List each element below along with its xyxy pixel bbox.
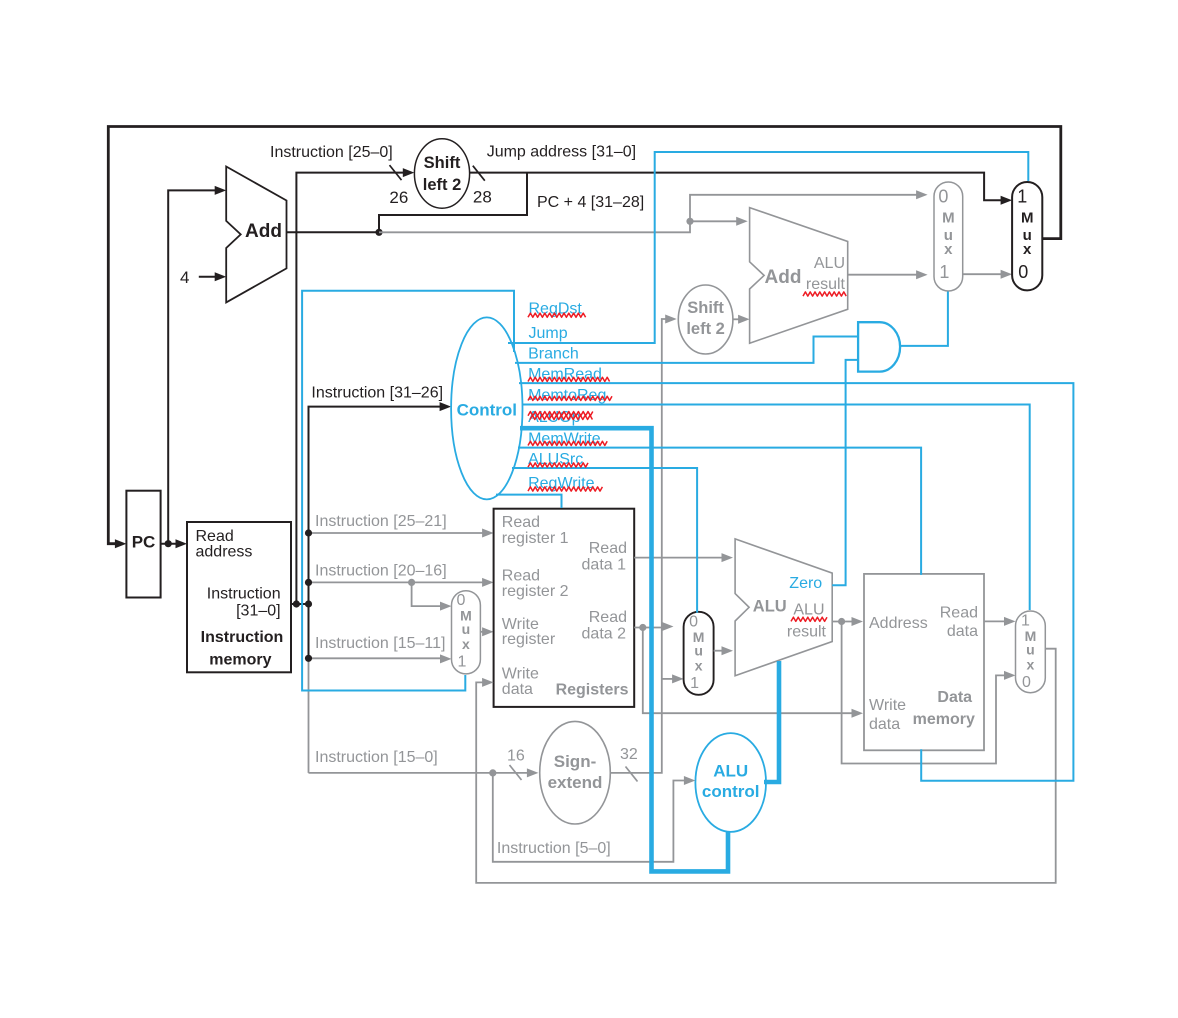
svg-text:M: M	[942, 210, 955, 227]
svg-text:ALU: ALU	[713, 762, 748, 781]
ALU control unit	[695, 733, 766, 832]
svg-text:ALU: ALU	[753, 598, 787, 616]
data memory	[864, 574, 984, 750]
instruction memory	[187, 522, 291, 672]
svg-text:Write: Write	[869, 697, 906, 714]
shifter Shift left 2 (jump)	[414, 139, 469, 208]
svg-text:x: x	[462, 636, 470, 652]
svg-text:x: x	[1023, 241, 1032, 258]
mux ALUSrc	[684, 612, 714, 695]
mux jump (PC source 2)	[1012, 182, 1042, 290]
wire: jump mux output feedback to PC (top border loop)	[108, 127, 1061, 544]
wire: Instruction[15-0] to sign extend	[309, 772, 531, 774]
svg-text:memory: memory	[209, 652, 271, 669]
svg-text:1: 1	[457, 654, 466, 671]
svg-text:ALU: ALU	[814, 255, 845, 272]
node: instruction output junction A	[293, 600, 300, 607]
wire: Add output PC+4	[287, 231, 380, 233]
wire: AND gate output to branch mux select	[900, 292, 948, 346]
svg-text:Address: Address	[869, 615, 928, 632]
svg-text:data 1: data 1	[582, 557, 627, 574]
wire: MemWrite control to data memory	[518, 448, 921, 575]
svg-text:0: 0	[1018, 262, 1028, 282]
wire: MemtoReg control to memtoreg mux select	[522, 405, 1030, 611]
AND gate (branch taken)	[858, 322, 900, 371]
node: tap 20-16	[305, 579, 312, 586]
svg-text:Add: Add	[765, 267, 802, 288]
wire: regdst mux to write register	[480, 631, 485, 633]
wire: Branch control to AND gate	[515, 337, 857, 363]
svg-text:1: 1	[690, 675, 699, 692]
mux memtoreg	[1016, 611, 1046, 693]
wire: instruction memory output stub	[291, 603, 309, 605]
registers file	[494, 509, 635, 707]
wire: Instruction[20-16] to read register 2	[309, 581, 486, 583]
adder Add (PC+4)	[226, 167, 286, 303]
svg-text:data: data	[502, 681, 533, 698]
wire: ALU control to ALU operation input (bus)	[764, 661, 779, 782]
wire: RegWrite control to registers	[496, 495, 562, 508]
svg-text:Instruction: Instruction	[201, 629, 284, 646]
svg-text:Zero: Zero	[789, 575, 822, 592]
svg-text:control: control	[702, 782, 760, 801]
wire: instruction field riser (black part)	[308, 604, 310, 658]
node: PC output junction	[165, 540, 172, 547]
svg-text:result: result	[787, 624, 827, 641]
svg-text:Read: Read	[502, 568, 540, 585]
wire: read data to memtoreg mux input 1	[984, 620, 1008, 622]
svg-text:Write: Write	[502, 666, 539, 683]
svg-text:Instruction [5–0]: Instruction [5–0]	[497, 840, 611, 857]
wire: Zero flag to AND gate	[832, 360, 857, 585]
svg-text:Data: Data	[937, 689, 972, 706]
wire: memtoreg mux output write-back to registers write data	[476, 649, 1055, 883]
svg-text:Jump: Jump	[529, 325, 568, 342]
svg-text:0: 0	[456, 592, 465, 609]
svg-text:data: data	[947, 623, 978, 640]
svg-text:u: u	[694, 642, 703, 658]
svg-text:Instruction [25–21]: Instruction [25–21]	[315, 513, 447, 530]
svg-text:ALU: ALU	[793, 602, 824, 619]
svg-text:Read: Read	[940, 605, 978, 622]
wire: PC to Add top input	[168, 190, 218, 543]
svg-text:memory: memory	[913, 711, 975, 728]
svg-text:1: 1	[1021, 613, 1030, 630]
node: 15-0 junction to ALU control path	[489, 769, 496, 776]
svg-text:Add: Add	[245, 221, 282, 242]
wire: ALUSrc mux output to ALU	[714, 650, 725, 652]
squiggle under branch ALU result	[803, 292, 846, 296]
svg-text:Branch: Branch	[528, 346, 579, 363]
svg-text:Instruction: Instruction	[207, 585, 281, 602]
svg-text:Read: Read	[589, 609, 627, 626]
svg-text:register 2: register 2	[502, 583, 569, 600]
svg-text:left 2: left 2	[423, 176, 462, 194]
wire: PC+4 to branch mux input 0	[379, 195, 920, 233]
wire: shift left 2 to branch adder bottom input	[733, 318, 742, 320]
wire: ALUSrc control to ALUSrc mux select	[512, 468, 697, 613]
node: read data 2 junction	[639, 624, 646, 631]
node: PC+4 junction	[375, 229, 382, 236]
wire: ALU result to memtoreg mux input 0	[842, 622, 1008, 764]
wire: read data 1 to ALU	[634, 557, 725, 559]
svg-text:M: M	[1021, 210, 1034, 227]
wire: branch offset to ALUSrc mux input 1	[662, 678, 676, 680]
svg-text:4: 4	[180, 268, 189, 287]
svg-text:Instruction [15–11]: Instruction [15–11]	[315, 635, 445, 652]
wire: MemRead control to data memory	[519, 383, 1073, 781]
svg-text:Instruction [25–0]: Instruction [25–0]	[270, 144, 393, 161]
svg-text:u: u	[1026, 642, 1035, 658]
svg-text:32: 32	[620, 746, 638, 763]
register PC	[126, 491, 160, 598]
svg-text:0: 0	[938, 187, 948, 207]
wire: sign extend output to ALUSrc mux input 1 and shift left 2	[611, 319, 669, 773]
control unit	[451, 317, 522, 499]
svg-text:28: 28	[473, 188, 492, 207]
sign extender	[540, 721, 611, 824]
wire: RegDst control to regdst mux select	[302, 291, 514, 691]
mux branch (PC source)	[934, 182, 963, 291]
svg-text:x: x	[944, 241, 953, 258]
wire: Jump control to jump mux select	[508, 152, 1028, 343]
svg-text:extend: extend	[548, 773, 603, 792]
svg-text:Read: Read	[502, 514, 540, 531]
svg-text:0: 0	[689, 613, 698, 630]
wire: Instruction[31-26] to Control	[309, 407, 444, 604]
svg-text:Registers: Registers	[556, 682, 629, 699]
wire: Instruction[20-16] branch to regdst mux input 0	[412, 582, 444, 606]
wire: Instruction[5-0] to ALU control	[493, 773, 688, 862]
svg-text:Control: Control	[457, 401, 517, 420]
wire: PC+4 [31-28] up-link to jump address	[379, 173, 527, 233]
wire: ALUOp control to ALU control (2-bit bus)	[520, 428, 728, 871]
svg-text:MemtoReg: MemtoReg	[528, 387, 606, 404]
wire: branch adder result to branch mux input 1	[848, 274, 920, 276]
ALU	[735, 539, 832, 676]
wire: constant 4 to Add bottom input	[199, 276, 218, 278]
wire: Instruction[25-21] to read register 1	[309, 532, 486, 534]
wire: branch mux output to jump mux input 0	[963, 273, 1004, 275]
shifter Shift left 2 (branch)	[678, 285, 733, 354]
node: PC+4 branch junction	[686, 218, 693, 225]
node: instruction output junction B	[305, 600, 312, 607]
svg-text:Instruction [20–16]: Instruction [20–16]	[315, 563, 447, 580]
wire: jump address to jump mux input 1	[470, 173, 1005, 201]
node: 20-16 branch junction	[408, 579, 415, 586]
wire: PC output to instruction memory read address	[161, 543, 180, 545]
svg-text:Jump address [31–0]: Jump address [31–0]	[487, 144, 636, 161]
svg-text:0: 0	[1022, 674, 1031, 691]
svg-text:26: 26	[389, 188, 408, 207]
svg-text:result: result	[806, 276, 846, 293]
svg-text:Shift: Shift	[687, 299, 724, 317]
svg-text:1: 1	[939, 262, 949, 282]
svg-text:x: x	[695, 657, 703, 673]
wire: instruction field riser (grey part)	[308, 658, 310, 773]
svg-text:left 2: left 2	[686, 320, 725, 338]
svg-text:x: x	[1027, 657, 1035, 673]
wire: PC+4 to branch adder top input	[690, 220, 740, 222]
squiggle under ALU result label	[791, 617, 827, 621]
svg-text:data: data	[869, 716, 900, 733]
wire: ALU result to data memory address	[832, 621, 855, 623]
node: tap 25-21	[305, 529, 312, 536]
adder Add (branch target)	[750, 208, 848, 344]
svg-text:Instruction [15–0]: Instruction [15–0]	[315, 749, 438, 766]
svg-text:Read: Read	[589, 540, 627, 557]
node: ALU result junction	[838, 618, 845, 625]
svg-text:Shift: Shift	[424, 154, 461, 172]
svg-text:[31–0]: [31–0]	[236, 603, 280, 620]
svg-text:data 2: data 2	[582, 625, 627, 642]
svg-text:address: address	[196, 543, 253, 560]
svg-text:register 1: register 1	[502, 530, 569, 547]
wire: Instruction[15-11] to regdst mux input 1	[309, 657, 444, 659]
wire: read data 2 to ALUSrc mux input 0	[634, 627, 665, 629]
svg-text:Instruction [31–26]: Instruction [31–26]	[311, 385, 443, 402]
svg-text:Sign-: Sign-	[554, 752, 597, 771]
mux regdst (write register)	[452, 591, 481, 674]
svg-text:register: register	[502, 631, 556, 648]
node: tap 15-11	[305, 655, 312, 662]
wire: Instruction[25-0] riser to shift left 2	[296, 173, 406, 604]
svg-text:PC: PC	[132, 533, 156, 552]
wire: read data 2 to data memory write data	[643, 628, 855, 714]
svg-text:PC + 4 [31–28]: PC + 4 [31–28]	[537, 194, 644, 211]
svg-text:16: 16	[507, 748, 525, 765]
svg-text:u: u	[462, 621, 471, 637]
svg-text:1: 1	[1017, 187, 1027, 207]
